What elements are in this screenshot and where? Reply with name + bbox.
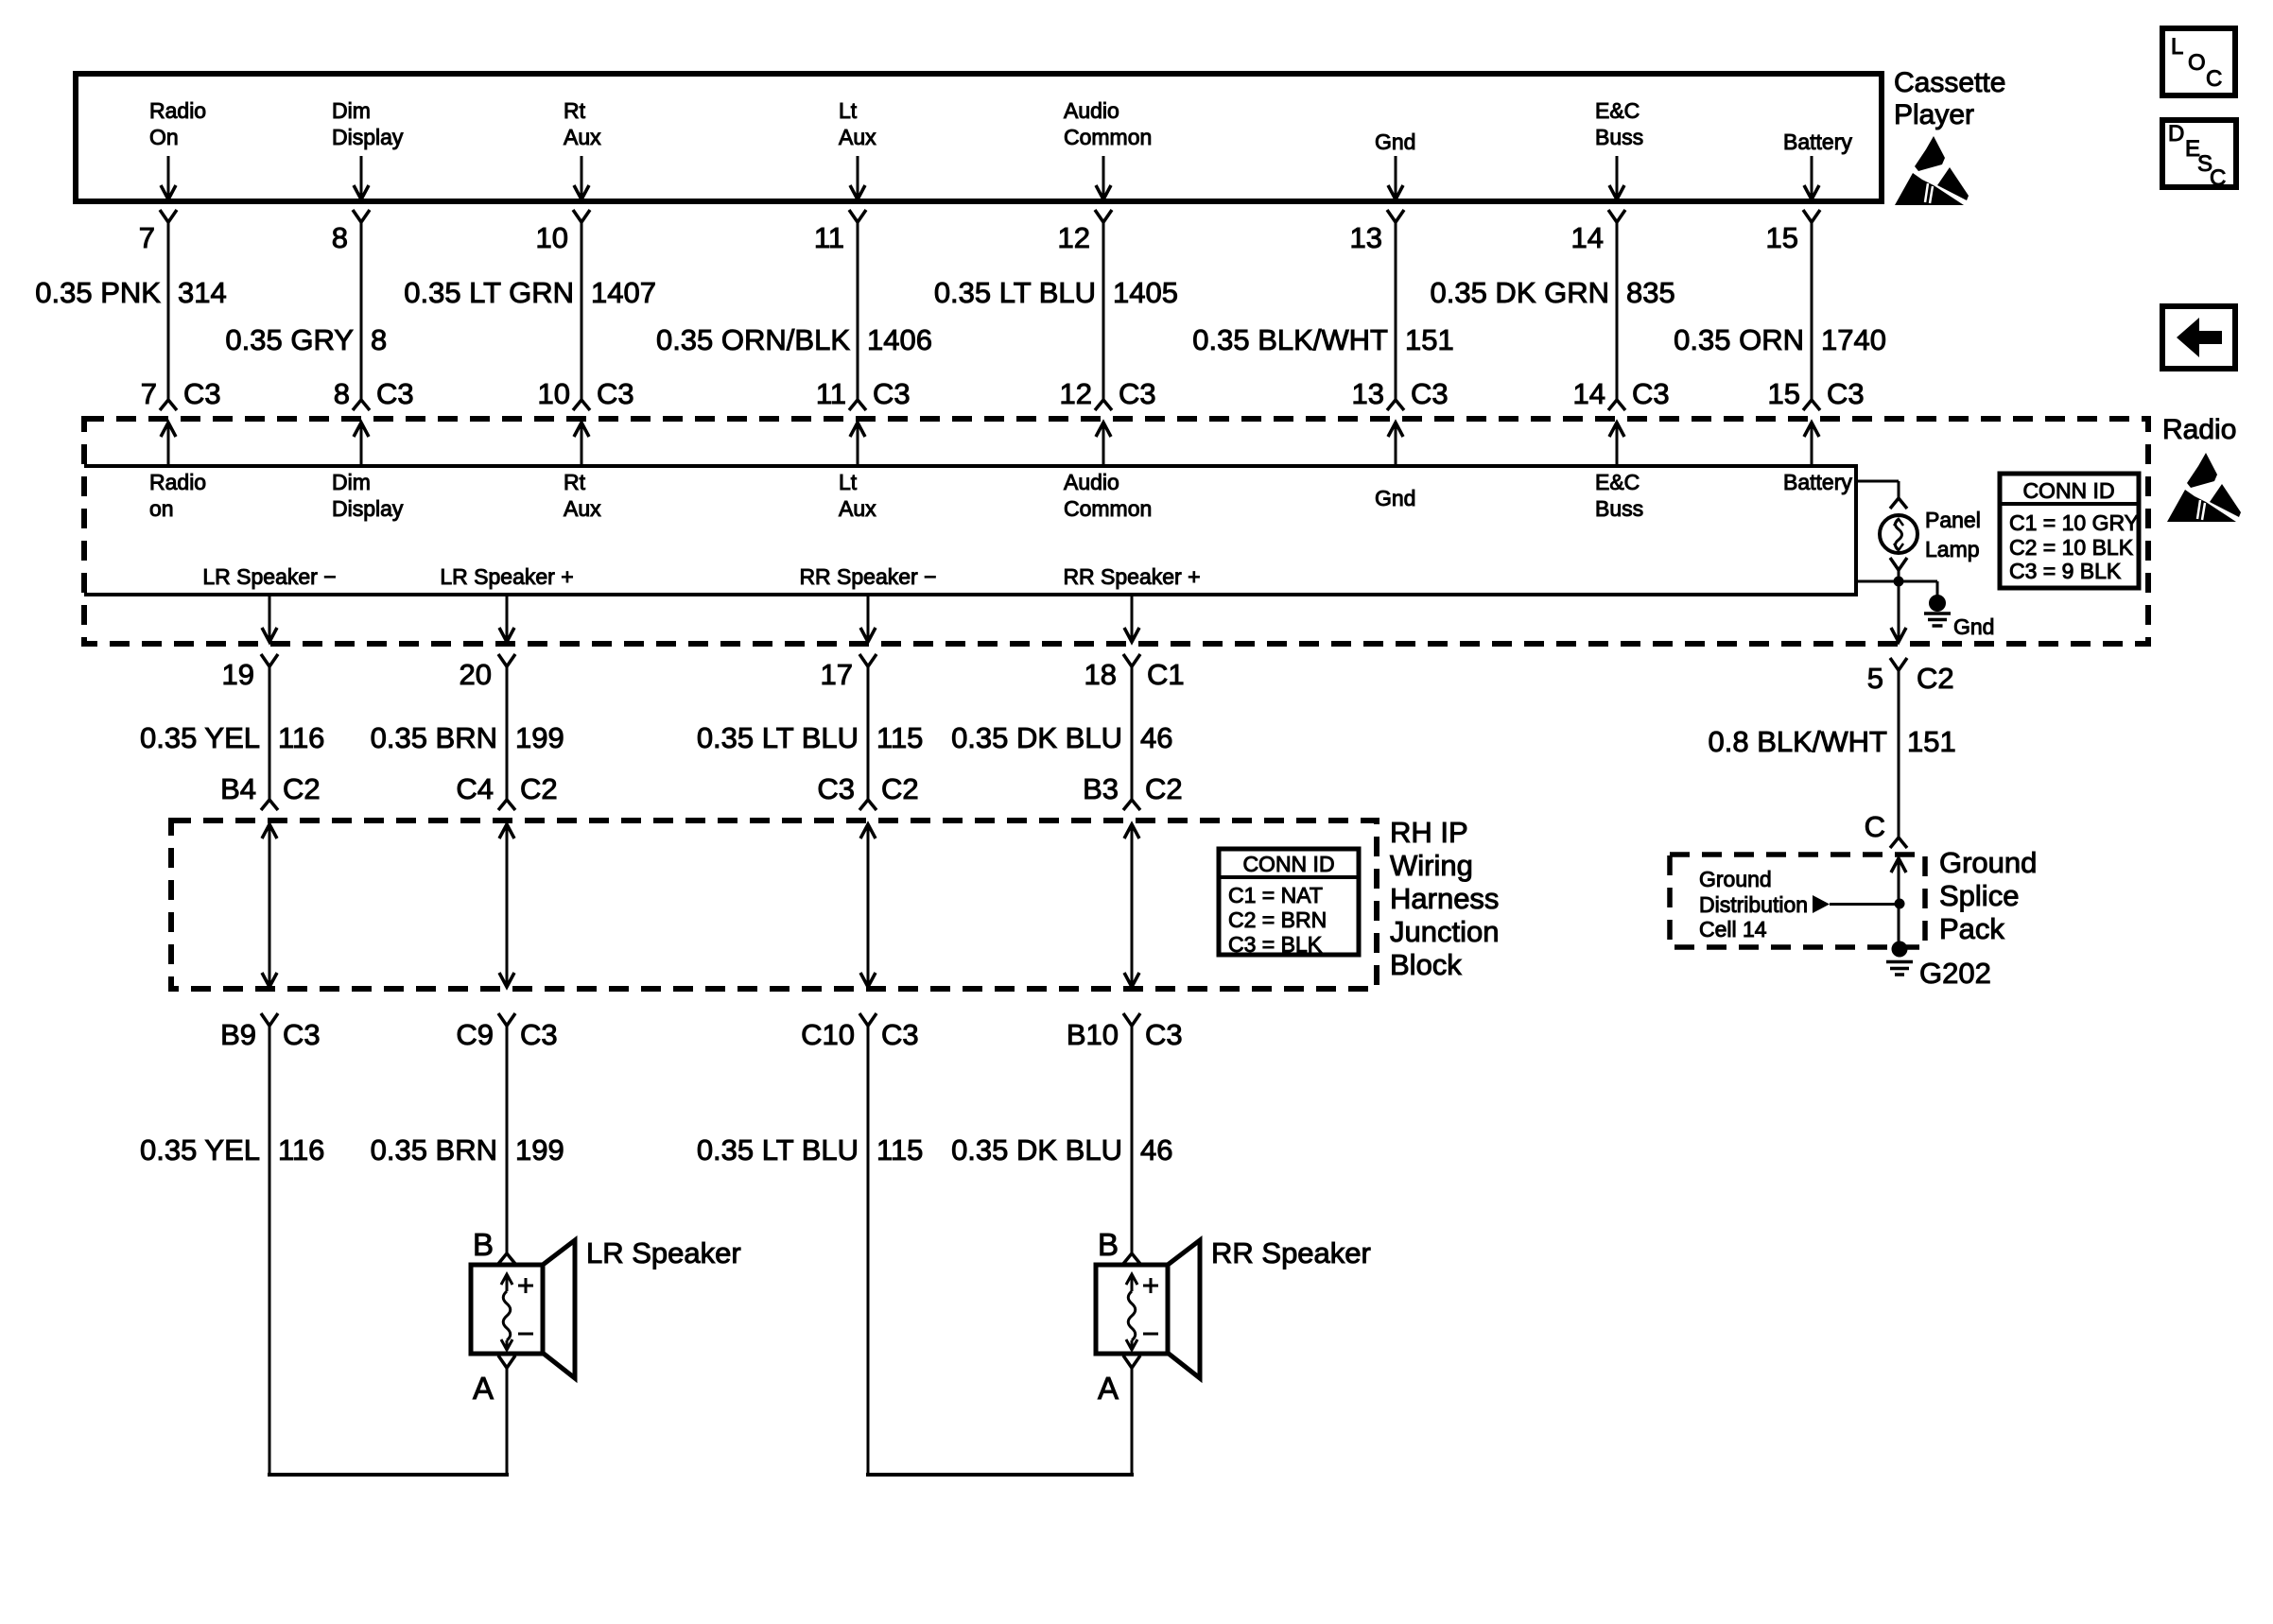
RH IP Wiring Harness Junction Block title: [1390, 816, 1499, 981]
wire from cassette pin 10 to radio: [581, 222, 583, 400]
svg-text:Pack: Pack: [1939, 912, 2004, 945]
connector C3 pin 12 at radio: [1060, 377, 1156, 410]
svg-text:0.35 PNK: 0.35 PNK: [35, 276, 161, 309]
svg-text:Panel: Panel: [1925, 508, 1981, 532]
connector C3 pin 11 at radio: [816, 377, 911, 410]
svg-text:11: 11: [814, 221, 844, 254]
svg-text:CONN ID: CONN ID: [1242, 852, 1334, 876]
radio internal label Lt Aux: [839, 470, 876, 521]
LR Speaker label: [586, 1236, 741, 1270]
arrow inside cassette box at pin 11: [850, 156, 865, 199]
svg-text:1407: 1407: [591, 276, 656, 309]
wire LR speaker negative (junction to loop): [269, 1026, 271, 1473]
connector below radio pin 17: [821, 654, 876, 691]
svg-text:B: B: [473, 1227, 494, 1262]
connector C10 C3 below junction block: [801, 1013, 919, 1051]
svg-text:C3: C3: [1411, 377, 1449, 410]
svg-text:C2 = 10 BLK: C2 = 10 BLK: [2009, 535, 2134, 560]
wire LR speaker positive (junction to speaker B): [506, 1026, 509, 1253]
connector C at ground splice pack: [1890, 838, 1907, 848]
wire from cassette pin 13 to radio: [1395, 222, 1397, 400]
ground splice dot G202: [1886, 942, 1913, 976]
wire radio battery to panel lamp: [1856, 481, 1899, 498]
connector C3 pin 14 at radio: [1573, 377, 1670, 410]
wire label 0.35 BLK/WHT 151: [1192, 323, 1453, 356]
radio internal label Rt Aux: [564, 470, 601, 521]
arrow inside cassette box at pin 12: [1096, 156, 1111, 199]
radio internal ground symbol: [1924, 581, 1951, 626]
svg-text:On: On: [149, 125, 179, 149]
wire RR speaker negative (junction to loop): [867, 1026, 870, 1473]
svg-text:10: 10: [536, 221, 568, 254]
svg-text:0.35 BRN: 0.35 BRN: [371, 1133, 497, 1166]
svg-text:0.35 GRY: 0.35 GRY: [225, 323, 354, 356]
svg-text:151: 151: [1405, 323, 1454, 356]
svg-text:O: O: [2188, 50, 2206, 76]
svg-text:C3: C3: [873, 377, 911, 410]
svg-text:C3: C3: [817, 772, 855, 805]
wire label 0.8 BLK/WHT 151: [1709, 725, 1956, 758]
pin number 13: [1350, 221, 1382, 254]
wire label 0.35 DK BLU 46 (to speaker): [951, 1133, 1172, 1166]
svg-text:A: A: [1098, 1371, 1119, 1406]
wire label 0.35 LT GRN 1407: [404, 276, 656, 309]
svg-text:115: 115: [876, 721, 923, 754]
arrow inside cassette box at pin 13: [1388, 156, 1403, 199]
svg-text:C2: C2: [1145, 772, 1183, 805]
connector B9 C3 below junction block: [220, 1013, 321, 1051]
svg-text:0.8 BLK/WHT: 0.8 BLK/WHT: [1709, 725, 1888, 758]
svg-text:Player: Player: [1894, 99, 1974, 130]
svg-text:151: 151: [1907, 725, 1956, 758]
connector C3 pin 13 at radio: [1352, 377, 1449, 410]
svg-text:15: 15: [1768, 377, 1800, 410]
radio internal label RR Speaker +: [1063, 564, 1200, 589]
connector B at LR Speaker: [473, 1227, 515, 1264]
svg-text:8: 8: [332, 221, 348, 254]
svg-text:13: 13: [1352, 377, 1384, 410]
svg-text:12: 12: [1058, 221, 1090, 254]
connector B3 C2 at junction block: [1083, 772, 1183, 810]
svg-text:Audio: Audio: [1064, 98, 1119, 123]
wire from cassette pin 7 to radio: [167, 222, 170, 400]
svg-text:G202: G202: [1919, 957, 1991, 990]
svg-text:0.35 DK GRN: 0.35 DK GRN: [1430, 276, 1609, 309]
svg-text:CONN ID: CONN ID: [2022, 478, 2114, 503]
svg-text:1740: 1740: [1821, 323, 1886, 356]
arrow inside cassette box at pin 14: [1609, 156, 1624, 199]
svg-text:14: 14: [1573, 377, 1605, 410]
radio inner box: [84, 466, 1856, 595]
wire label 0.35 BRN 199: [371, 721, 564, 754]
wire label 0.35 GRY 8: [225, 323, 387, 356]
svg-text:Dim: Dim: [332, 98, 371, 123]
svg-text:Audio: Audio: [1064, 470, 1119, 494]
wire label 0.35 LT BLU 115 (to speaker): [697, 1133, 924, 1166]
svg-text:C: C: [2206, 66, 2222, 92]
svg-text:B: B: [1098, 1227, 1119, 1262]
svg-text:Lt: Lt: [839, 470, 858, 494]
arrow out of radio (RR Speaker +): [1124, 596, 1139, 642]
DESC legend box: [2162, 120, 2236, 191]
cassette pin label E&amp;C Buss: [1595, 98, 1643, 149]
radio internal label LR Speaker +: [440, 564, 573, 589]
arrow out of radio (LR Speaker -): [262, 596, 277, 642]
svg-text:0.35 DK BLU: 0.35 DK BLU: [951, 1133, 1122, 1166]
pin number 15: [1766, 221, 1798, 254]
G202 label: [1919, 957, 1991, 990]
wire RR speaker positive (junction to speaker B): [1131, 1026, 1134, 1253]
wire 0.35 DK BLU 46 radio to junction block: [1131, 666, 1134, 800]
svg-text:C3 = 9 BLK: C3 = 9 BLK: [2009, 559, 2122, 583]
wire label 0.35 ORN/BLK 1406: [656, 323, 932, 356]
Radio title: [2162, 414, 2236, 445]
wire through junction block (B4 to B9): [262, 824, 277, 987]
svg-text:12: 12: [1060, 377, 1092, 410]
RR Speaker: [1096, 1240, 1200, 1378]
svg-text:Buss: Buss: [1595, 125, 1643, 149]
svg-text:18: 18: [1084, 658, 1117, 691]
svg-text:RR Speaker: RR Speaker: [1211, 1236, 1371, 1270]
arrow into radio at pin 11: [850, 423, 865, 466]
connector at panel lamp bottom: [1890, 558, 1907, 570]
arrow into radio at pin 7: [161, 423, 176, 466]
wire loop bottom RR: [866, 1473, 1134, 1477]
cassette pin label Lt Aux: [839, 98, 876, 149]
svg-text:Buss: Buss: [1595, 496, 1643, 521]
svg-text:Battery: Battery: [1783, 130, 1852, 154]
svg-text:Ground: Ground: [1939, 846, 2037, 879]
arrow into radio at pin 14: [1609, 423, 1624, 466]
wire through junction block (B3 to B10): [1124, 824, 1139, 987]
svg-text:E&C: E&C: [1595, 470, 1640, 494]
LR Speaker: [471, 1240, 575, 1378]
svg-text:C2: C2: [520, 772, 558, 805]
svg-text:7: 7: [139, 221, 155, 254]
C label at ground splice pack: [1865, 810, 1885, 843]
radio internal label Audio Common: [1064, 470, 1152, 521]
svg-text:Gnd: Gnd: [1953, 614, 1994, 639]
svg-text:0.35 BLK/WHT: 0.35 BLK/WHT: [1192, 323, 1388, 356]
wire label 0.35 LT BLU 1405: [934, 276, 1178, 309]
svg-text:Aux: Aux: [564, 125, 601, 149]
svg-text:Radio: Radio: [149, 98, 206, 123]
cassette pin label Gnd: [1375, 130, 1415, 154]
Ground Splice Pack title: [1939, 846, 2037, 945]
svg-text:RR Speaker −: RR Speaker −: [799, 564, 936, 589]
cassette player box: [76, 74, 1882, 201]
Gnd label (radio internal): [1953, 614, 1994, 639]
svg-text:C3: C3: [1632, 377, 1670, 410]
wire label 0.35 DK GRN 835: [1430, 276, 1674, 309]
junction node at radio gnd: [1894, 577, 1904, 587]
arrow out of radio (LR Speaker +): [499, 596, 514, 642]
svg-text:Cell 14: Cell 14: [1699, 917, 1767, 942]
wire from cassette pin 14 to radio: [1616, 222, 1619, 400]
cassette pin label Radio On: [149, 98, 206, 149]
wire panel lamp to gnd splice: [1856, 570, 1937, 640]
svg-text:0.35 LT BLU: 0.35 LT BLU: [934, 276, 1096, 309]
svg-text:LR Speaker +: LR Speaker +: [440, 564, 573, 589]
RR Speaker label: [1211, 1236, 1371, 1270]
svg-text:Distribution: Distribution: [1699, 892, 1808, 917]
svg-text:Junction: Junction: [1390, 915, 1499, 948]
svg-text:46: 46: [1140, 1133, 1172, 1166]
ESD symbol (cassette player): [1895, 136, 1969, 205]
connector A at RR Speaker: [1098, 1356, 1140, 1406]
pin number 14: [1571, 221, 1604, 254]
svg-text:C1: C1: [1147, 658, 1185, 691]
wire from cassette pin 8 to radio: [360, 222, 363, 400]
svg-text:199: 199: [515, 721, 564, 754]
svg-text:C2: C2: [881, 772, 919, 805]
svg-text:0.35 ORN: 0.35 ORN: [1674, 323, 1804, 356]
svg-text:Rt: Rt: [564, 98, 586, 123]
radio internal label LR Speaker -: [202, 564, 336, 589]
svg-text:0.35 LT BLU: 0.35 LT BLU: [697, 721, 859, 754]
svg-text:C3: C3: [283, 1018, 321, 1051]
svg-text:0.35 DK BLU: 0.35 DK BLU: [951, 721, 1122, 754]
svg-text:115: 115: [876, 1133, 923, 1166]
wire from cassette pin 11 to radio: [857, 222, 859, 400]
svg-text:Aux: Aux: [564, 496, 601, 521]
svg-text:C: C: [2210, 165, 2226, 191]
svg-text:C10: C10: [801, 1018, 855, 1051]
svg-text:0.35 BRN: 0.35 BRN: [371, 721, 497, 754]
cassette pin label Battery: [1783, 130, 1852, 154]
connector at cassette pin 15: [1803, 210, 1820, 222]
svg-text:B10: B10: [1067, 1018, 1119, 1051]
svg-text:Dim: Dim: [332, 470, 371, 494]
svg-text:L: L: [2171, 34, 2183, 60]
svg-text:10: 10: [538, 377, 570, 410]
svg-text:Lamp: Lamp: [1925, 537, 1980, 561]
radio internal label Radio On: [149, 470, 206, 521]
svg-text:20: 20: [460, 658, 492, 691]
ground distribution arrowhead and wire: [1813, 895, 1899, 913]
svg-text:C9: C9: [456, 1018, 494, 1051]
radio dashed outline: [84, 419, 2148, 644]
wire label 0.35 DK BLU 46: [951, 721, 1172, 754]
pin number 7: [139, 221, 155, 254]
pin number 8: [332, 221, 348, 254]
svg-text:C2: C2: [1917, 662, 1954, 695]
svg-text:C3: C3: [597, 377, 634, 410]
arrow inside cassette box at pin 15: [1804, 156, 1819, 199]
svg-text:15: 15: [1766, 221, 1798, 254]
svg-text:Common: Common: [1064, 496, 1152, 521]
arrow inside cassette box at pin 7: [161, 156, 176, 199]
svg-text:C3 = BLK: C3 = BLK: [1228, 932, 1323, 957]
connector C3 pin 7 at radio: [141, 377, 221, 410]
svg-text:C3: C3: [881, 1018, 919, 1051]
connector at panel lamp top: [1890, 498, 1907, 509]
ESD symbol (radio): [2167, 453, 2241, 522]
wire label 0.35 PNK 314: [35, 276, 226, 309]
svg-text:LR Speaker: LR Speaker: [586, 1236, 741, 1270]
connector C3 pin 10 at radio: [538, 377, 634, 410]
svg-text:0.35 LT BLU: 0.35 LT BLU: [697, 1133, 859, 1166]
wire label 0.35 ORN 1740: [1674, 323, 1886, 356]
svg-text:C3: C3: [1827, 377, 1865, 410]
svg-text:Radio: Radio: [2162, 414, 2236, 445]
svg-text:C3: C3: [183, 377, 221, 410]
svg-text:Harness: Harness: [1390, 882, 1499, 915]
wire LR speaker A to loop: [506, 1368, 509, 1473]
svg-text:Aux: Aux: [839, 496, 876, 521]
arrow out of radio (RR Speaker -): [860, 596, 876, 642]
svg-text:8: 8: [334, 377, 350, 410]
wire label 0.35 BRN 199 (to speaker): [371, 1133, 564, 1166]
connector at cassette pin 10: [573, 210, 590, 222]
connector at cassette pin 8: [353, 210, 370, 222]
radio internal label Dim Display: [332, 470, 404, 521]
arrow out of radio (gnd wire): [1891, 628, 1906, 642]
connector B10 C3 below junction block: [1067, 1013, 1183, 1051]
svg-text:C3: C3: [520, 1018, 558, 1051]
wire loop bottom LR: [268, 1473, 509, 1477]
svg-text:Gnd: Gnd: [1375, 130, 1415, 154]
svg-text:RH IP: RH IP: [1390, 816, 1468, 849]
svg-text:19: 19: [222, 658, 254, 691]
svg-text:0.35 ORN/BLK: 0.35 ORN/BLK: [656, 323, 850, 356]
svg-text:C: C: [1865, 810, 1885, 843]
svg-text:46: 46: [1140, 721, 1172, 754]
svg-text:B4: B4: [220, 772, 256, 805]
cassette pin label Rt Aux: [564, 98, 601, 149]
connector C3 pin 8 at radio: [334, 377, 414, 410]
arrow inside cassette box at pin 10: [574, 156, 589, 199]
wire from cassette pin 15 to radio: [1811, 222, 1813, 400]
svg-text:Lt: Lt: [839, 98, 858, 123]
svg-text:8: 8: [371, 323, 387, 356]
svg-text:C3: C3: [1119, 377, 1156, 410]
svg-text:C1 = NAT: C1 = NAT: [1228, 883, 1323, 907]
svg-text:RR Speaker +: RR Speaker +: [1063, 564, 1200, 589]
arrow inside cassette box at pin 8: [354, 156, 369, 199]
arrow into radio at pin 15: [1804, 423, 1819, 466]
svg-text:C3: C3: [1145, 1018, 1183, 1051]
wire 0.35 YEL 116 radio to junction block: [269, 666, 271, 800]
svg-text:11: 11: [816, 377, 846, 410]
connector 5 C2 below radio (gnd wire): [1867, 658, 1954, 695]
svg-text:17: 17: [821, 658, 853, 691]
svg-text:14: 14: [1571, 221, 1604, 254]
Panel Lamp label: [1925, 508, 1981, 561]
svg-text:116: 116: [278, 1133, 324, 1166]
connector A at LR Speaker: [473, 1356, 515, 1406]
back arrow box: [2162, 306, 2235, 369]
svg-text:C2: C2: [283, 772, 321, 805]
svg-text:Wiring: Wiring: [1390, 849, 1473, 882]
pin number 10: [536, 221, 568, 254]
connector B4 C2 at junction block: [220, 772, 321, 810]
wire 0.35 BRN 199 radio to junction block: [506, 666, 509, 800]
panel lamp: [1880, 515, 1917, 553]
arrow into radio at pin 10: [574, 423, 589, 466]
svg-text:Block: Block: [1390, 948, 1462, 981]
radio internal label Gnd: [1375, 486, 1415, 510]
svg-text:116: 116: [278, 721, 324, 754]
svg-text:1405: 1405: [1113, 276, 1178, 309]
connector below radio pin 19: [222, 654, 278, 691]
radio CONN ID table: [2000, 474, 2139, 588]
svg-text:Gnd: Gnd: [1375, 486, 1415, 510]
svg-text:314: 314: [178, 276, 227, 309]
RH IP wiring harness junction block dashed outline: [171, 821, 1377, 989]
svg-text:C3: C3: [376, 377, 414, 410]
svg-text:5: 5: [1867, 662, 1883, 695]
wire RR speaker A to loop: [1131, 1368, 1134, 1473]
connector B at RR Speaker: [1098, 1227, 1140, 1264]
arrow into radio at pin 8: [354, 423, 369, 466]
wire label 0.35 LT BLU 115: [697, 721, 924, 754]
svg-text:Aux: Aux: [839, 125, 876, 149]
wire through junction block (C3 to C10): [860, 824, 876, 987]
svg-text:C1 = 10 GRY: C1 = 10 GRY: [2009, 510, 2139, 535]
svg-text:835: 835: [1626, 276, 1675, 309]
radio internal label Battery: [1783, 470, 1852, 494]
connector at cassette pin 14: [1608, 210, 1625, 222]
svg-text:C4: C4: [456, 772, 494, 805]
radio internal label E&amp;C Buss: [1595, 470, 1643, 521]
wire label 0.35 YEL 116 (to speaker): [140, 1133, 324, 1166]
svg-text:Common: Common: [1064, 125, 1152, 149]
connector below radio pin 18: [1084, 654, 1185, 691]
svg-text:B3: B3: [1083, 772, 1119, 805]
svg-text:Display: Display: [332, 125, 404, 149]
svg-text:on: on: [149, 496, 174, 521]
svg-text:1406: 1406: [867, 323, 932, 356]
connector below radio pin 20: [460, 654, 515, 691]
connector at cassette pin 12: [1095, 210, 1112, 222]
Ground Distribution Cell 14 label: [1699, 867, 1808, 942]
svg-text:199: 199: [515, 1133, 564, 1166]
svg-text:C2 = BRN: C2 = BRN: [1228, 907, 1327, 932]
svg-text:Cassette: Cassette: [1894, 67, 2005, 98]
arrow into ground splice pack: [1891, 858, 1906, 948]
junction block CONN ID table: [1219, 849, 1359, 957]
connector at cassette pin 11: [849, 210, 866, 222]
connector C3 pin 15 at radio: [1768, 377, 1865, 410]
connector at cassette pin 13: [1387, 210, 1404, 222]
connector C9 C3 below junction block: [456, 1013, 557, 1051]
LOC legend box: [2162, 28, 2235, 95]
svg-text:Battery: Battery: [1783, 470, 1852, 494]
svg-text:Rt: Rt: [564, 470, 586, 494]
connector at cassette pin 7: [160, 210, 177, 222]
cassette pin label Audio Common: [1064, 98, 1152, 149]
pin number 12: [1058, 221, 1090, 254]
cassette pin label Dim Display: [332, 98, 404, 149]
wire 0.8 BLK/WHT 151 to ground splice pack: [1898, 670, 1900, 838]
svg-text:0.35 LT GRN: 0.35 LT GRN: [404, 276, 574, 309]
svg-text:0.35 YEL: 0.35 YEL: [140, 721, 260, 754]
svg-text:Display: Display: [332, 496, 404, 521]
svg-text:D: D: [2168, 121, 2184, 147]
svg-text:Splice: Splice: [1939, 879, 2019, 912]
pin number 11: [814, 221, 844, 254]
svg-text:B9: B9: [220, 1018, 256, 1051]
wire from cassette pin 12 to radio: [1102, 222, 1105, 400]
radio internal label RR Speaker -: [799, 564, 936, 589]
connector C4 C2 at junction block: [456, 772, 557, 810]
wire through junction block (C4 to C9): [499, 824, 514, 987]
svg-text:E&C: E&C: [1595, 98, 1640, 123]
ground splice pack dashed outline: [1670, 855, 1925, 947]
svg-text:13: 13: [1350, 221, 1382, 254]
wire label 0.35 YEL 116: [140, 721, 324, 754]
